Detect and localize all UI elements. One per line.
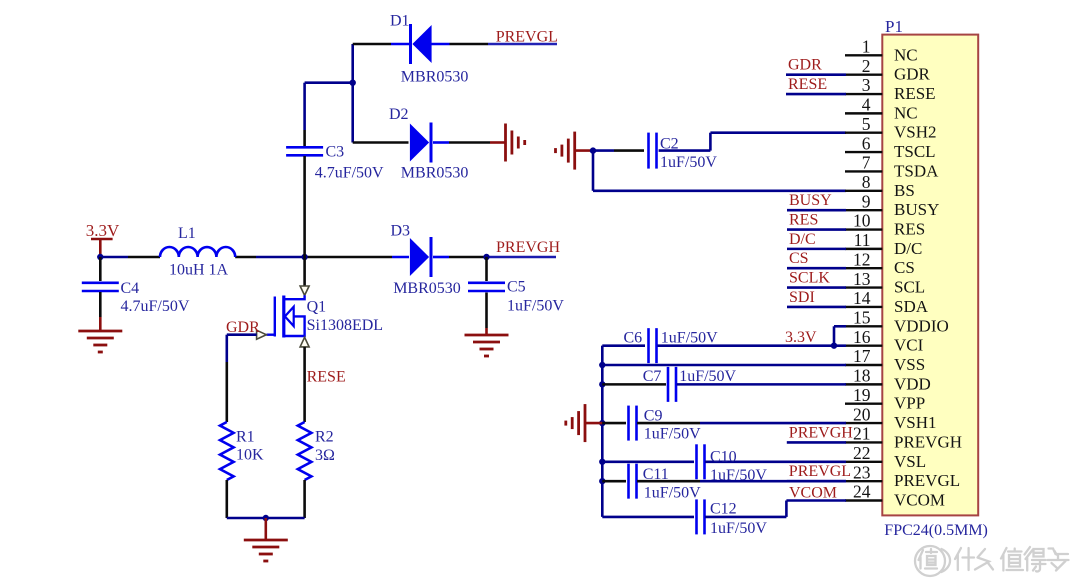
svg-text:R1: R1: [236, 429, 255, 446]
svg-text:L1: L1: [178, 225, 196, 242]
svg-text:3Ω: 3Ω: [315, 447, 335, 464]
svg-text:VDD: VDD: [894, 374, 931, 393]
svg-text:24: 24: [853, 482, 871, 502]
svg-text:VSH2: VSH2: [894, 123, 937, 142]
svg-text:NC: NC: [894, 103, 918, 122]
svg-text:11: 11: [854, 230, 871, 250]
svg-text:GDR: GDR: [226, 319, 260, 336]
svg-text:PREVGL: PREVGL: [496, 29, 558, 46]
svg-text:1: 1: [862, 37, 871, 57]
svg-text:1uF/50V: 1uF/50V: [644, 485, 701, 502]
svg-text:9: 9: [862, 191, 871, 211]
svg-text:3: 3: [862, 75, 871, 95]
svg-text:RES: RES: [789, 212, 818, 229]
svg-text:C4: C4: [121, 280, 140, 297]
svg-text:23: 23: [853, 462, 871, 482]
svg-text:MBR0530: MBR0530: [401, 69, 469, 86]
svg-text:1uF/50V: 1uF/50V: [660, 154, 717, 171]
svg-text:MBR0530: MBR0530: [401, 165, 469, 182]
svg-text:C11: C11: [643, 466, 669, 483]
svg-text:1uF/50V: 1uF/50V: [661, 330, 718, 347]
svg-text:20: 20: [853, 404, 871, 424]
svg-text:8: 8: [862, 172, 871, 192]
svg-text:BUSY: BUSY: [894, 200, 939, 219]
svg-text:4.7uF/50V: 4.7uF/50V: [121, 298, 190, 315]
svg-text:VSS: VSS: [894, 355, 925, 374]
svg-text:18: 18: [853, 366, 871, 386]
svg-text:C12: C12: [710, 501, 737, 518]
svg-text:15: 15: [853, 307, 871, 327]
svg-text:TSCL: TSCL: [894, 142, 936, 161]
svg-text:VDDIO: VDDIO: [894, 316, 949, 335]
svg-text:D3: D3: [391, 223, 411, 240]
svg-text:C6: C6: [624, 330, 643, 347]
svg-text:R2: R2: [315, 429, 334, 446]
svg-text:C10: C10: [710, 448, 737, 465]
svg-text:SCLK: SCLK: [789, 270, 830, 287]
svg-text:14: 14: [853, 288, 871, 308]
svg-text:VPP: VPP: [894, 394, 925, 413]
svg-text:PREVGL: PREVGL: [789, 463, 851, 480]
svg-text:Si1308EDL: Si1308EDL: [307, 317, 383, 334]
svg-text:C3: C3: [326, 144, 345, 161]
svg-text:SDI: SDI: [789, 289, 815, 306]
svg-text:C9: C9: [644, 408, 663, 425]
svg-text:1uF/50V: 1uF/50V: [644, 426, 701, 443]
svg-text:C5: C5: [507, 279, 526, 296]
svg-text:7: 7: [862, 153, 871, 173]
svg-text:RESE: RESE: [307, 369, 346, 386]
svg-text:BUSY: BUSY: [789, 192, 832, 209]
svg-text:VSL: VSL: [894, 452, 926, 471]
svg-text:13: 13: [853, 269, 871, 289]
svg-text:PREVGL: PREVGL: [894, 471, 960, 490]
svg-text:1uF/50V: 1uF/50V: [507, 298, 564, 315]
svg-text:12: 12: [853, 249, 871, 269]
svg-text:SDA: SDA: [894, 297, 929, 316]
svg-text:C7: C7: [643, 368, 662, 385]
svg-text:10: 10: [853, 211, 871, 231]
svg-text:VCOM: VCOM: [894, 491, 945, 510]
svg-text:PREVGH: PREVGH: [894, 432, 962, 451]
svg-text:19: 19: [853, 385, 871, 405]
svg-text:D1: D1: [390, 13, 410, 30]
svg-text:22: 22: [853, 443, 871, 463]
svg-text:TSDA: TSDA: [894, 161, 939, 180]
svg-text:6: 6: [862, 133, 871, 153]
svg-text:2: 2: [862, 56, 871, 76]
svg-text:GDR: GDR: [894, 65, 931, 84]
svg-text:PREVGH: PREVGH: [789, 424, 853, 441]
svg-text:VCOM: VCOM: [789, 485, 837, 502]
svg-text:SCL: SCL: [894, 278, 925, 297]
svg-text:5: 5: [862, 114, 871, 134]
svg-text:RESE: RESE: [894, 84, 936, 103]
svg-text:CS: CS: [894, 258, 915, 277]
svg-text:C2: C2: [660, 136, 679, 153]
svg-text:21: 21: [853, 424, 871, 444]
svg-text:Q1: Q1: [307, 299, 327, 316]
svg-text:VSH1: VSH1: [894, 413, 937, 432]
svg-text:10K: 10K: [236, 447, 264, 464]
svg-text:RES: RES: [894, 220, 925, 239]
svg-text:BS: BS: [894, 181, 915, 200]
svg-text:VCI: VCI: [894, 336, 924, 355]
svg-text:RESE: RESE: [788, 76, 827, 93]
svg-text:17: 17: [853, 346, 871, 366]
svg-text:10uH 1A: 10uH 1A: [169, 262, 229, 279]
svg-text:FPC24(0.5MM): FPC24(0.5MM): [884, 522, 988, 539]
svg-text:PREVGH: PREVGH: [496, 239, 560, 256]
svg-text:16: 16: [853, 327, 871, 347]
svg-text:1uF/50V: 1uF/50V: [679, 368, 736, 385]
svg-text:D2: D2: [389, 106, 409, 123]
svg-text:NC: NC: [894, 45, 918, 64]
svg-text:1uF/50V: 1uF/50V: [710, 520, 767, 537]
svg-text:4: 4: [862, 95, 871, 115]
svg-text:4.7uF/50V: 4.7uF/50V: [315, 165, 384, 182]
svg-text:D/C: D/C: [789, 231, 816, 248]
svg-text:3.3V: 3.3V: [86, 221, 120, 240]
svg-text:CS: CS: [789, 250, 809, 267]
svg-text:D/C: D/C: [894, 239, 922, 258]
svg-text:P1: P1: [885, 17, 903, 36]
svg-text:MBR0530: MBR0530: [393, 280, 461, 297]
svg-text:3.3V: 3.3V: [785, 329, 817, 346]
svg-text:GDR: GDR: [788, 57, 822, 74]
